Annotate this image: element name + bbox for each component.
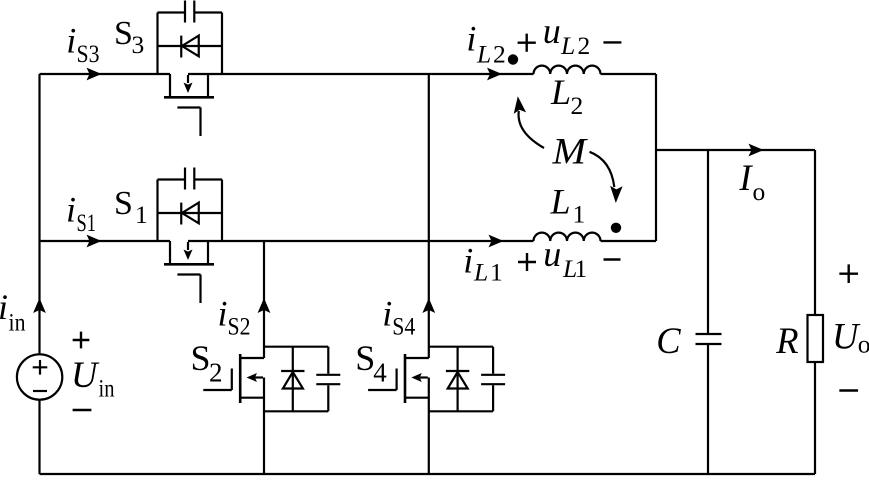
svg-text:in: in [9, 308, 26, 337]
inductor L1 [534, 233, 601, 241]
svg-text:U: U [71, 354, 100, 395]
svg-text:i: i [66, 21, 76, 61]
label I_o [738, 157, 765, 206]
wire: S4 branch vertical (top rail to bottom rail) [428, 74, 430, 474]
svg-text:1: 1 [490, 258, 503, 287]
label R [775, 320, 798, 361]
arrow i_in [33, 298, 46, 313]
svg-text:L: L [473, 258, 488, 287]
coupling dot of L2 [508, 54, 518, 64]
switch S3 body diode [181, 36, 199, 58]
wire: bottom rail [40, 473, 816, 475]
svg-text:C: C [656, 320, 681, 361]
label i_S4 [382, 294, 415, 341]
label M (mutual coupling) [551, 131, 588, 172]
svg-text:S3: S3 [77, 39, 100, 68]
svg-text:i: i [218, 294, 228, 334]
arrow i_S2 [258, 298, 271, 313]
label S4 [355, 338, 387, 388]
switch S2 parallel-branch frame [264, 347, 328, 412]
label i_in [0, 287, 26, 337]
label i_L1 [463, 241, 503, 287]
switch S1 body diode [181, 203, 199, 225]
switch S3 parallel-branch frame [158, 13, 223, 75]
svg-text:L: L [560, 31, 575, 60]
switch S4 parallel-branch frame [429, 347, 493, 412]
label S3 [114, 15, 144, 59]
label i_S3 [66, 21, 99, 69]
switch S2 MOSFET [203, 354, 264, 403]
wire: output rail [656, 149, 815, 151]
label S2 [191, 338, 223, 388]
wire: capacitor C branch [707, 150, 709, 474]
svg-text:1: 1 [575, 254, 588, 283]
wire: input left vertical [38, 74, 40, 474]
arrow i_S1 [87, 235, 102, 248]
svg-text:i: i [66, 190, 76, 230]
svg-text:i: i [382, 294, 392, 334]
svg-text:i: i [0, 287, 8, 327]
arrow i_L2 [487, 68, 502, 81]
svg-text:M: M [551, 131, 588, 172]
svg-text:S2: S2 [228, 311, 251, 340]
svg-text:u: u [543, 234, 561, 274]
svg-text:3: 3 [132, 30, 145, 59]
label i_L2 [466, 19, 505, 69]
switch S4 snubber capacitor [481, 375, 505, 384]
svg-text:I: I [738, 157, 753, 198]
svg-text:2: 2 [571, 91, 584, 120]
label S1 [114, 185, 148, 229]
switch S1 parallel-branch frame [158, 180, 223, 242]
switch S4 body diode [446, 371, 469, 389]
svg-text:L: L [550, 72, 571, 112]
label i_S1 [66, 190, 96, 238]
switch S1 snubber capacitor [185, 168, 194, 190]
svg-text:in: in [99, 374, 115, 403]
label C [656, 320, 681, 361]
svg-text:S: S [191, 338, 211, 378]
svg-text:S1: S1 [77, 208, 97, 237]
svg-text:o: o [858, 329, 869, 358]
wire: S2 branch vertical [263, 241, 265, 474]
arrow i_L1 [489, 235, 504, 248]
svg-text:2: 2 [493, 39, 506, 68]
switch S1 MOSFET [164, 241, 214, 303]
switch S2 body diode [281, 371, 304, 389]
switch S3 snubber capacitor [185, 1, 194, 23]
label i_S2 [218, 294, 251, 341]
capacitor C [696, 334, 722, 344]
label L1 [550, 182, 586, 229]
svg-text:R: R [775, 320, 798, 361]
svg-text:L: L [476, 39, 491, 68]
label L2 [550, 72, 583, 120]
switch S4 MOSFET [368, 354, 429, 403]
inductor L2 [534, 66, 601, 74]
wire: load R branch [814, 150, 816, 474]
voltage source U_in [17, 354, 62, 399]
svg-text:S4: S4 [392, 311, 415, 340]
coupling arrow M to L1 [590, 152, 623, 203]
svg-text:i: i [466, 19, 476, 59]
coupling dot of L1 [611, 223, 621, 233]
switch S2 snubber capacitor [316, 375, 340, 384]
wire: top rail (S3 / L2 row) [40, 73, 657, 75]
label u_L2 with polarity [518, 11, 622, 60]
switch S3 MOSFET [164, 74, 214, 136]
wire: middle rail (S1 / L1 row) [40, 240, 657, 242]
svg-text:2: 2 [209, 358, 223, 388]
coupling arrow M to L2 [514, 96, 544, 148]
arrow i_S4 [422, 298, 435, 313]
arrow i_S3 [87, 68, 102, 81]
svg-text:2: 2 [578, 31, 591, 60]
svg-text:u: u [543, 11, 561, 51]
svg-text:o: o [753, 177, 766, 206]
svg-text:i: i [463, 241, 473, 281]
svg-text:S: S [114, 185, 133, 222]
svg-text:U: U [832, 316, 861, 357]
svg-text:L: L [550, 182, 571, 222]
svg-text:4: 4 [373, 358, 387, 388]
arrow I_o [749, 144, 764, 157]
label U_in with polarity [71, 332, 115, 410]
label u_L1 with polarity [518, 234, 621, 283]
resistor R [808, 315, 824, 362]
wire: coupled-inductor right vertical [655, 74, 657, 241]
svg-text:1: 1 [573, 200, 586, 229]
svg-text:1: 1 [135, 200, 148, 229]
label U_o with polarity [832, 264, 869, 390]
svg-text:S: S [114, 15, 133, 52]
